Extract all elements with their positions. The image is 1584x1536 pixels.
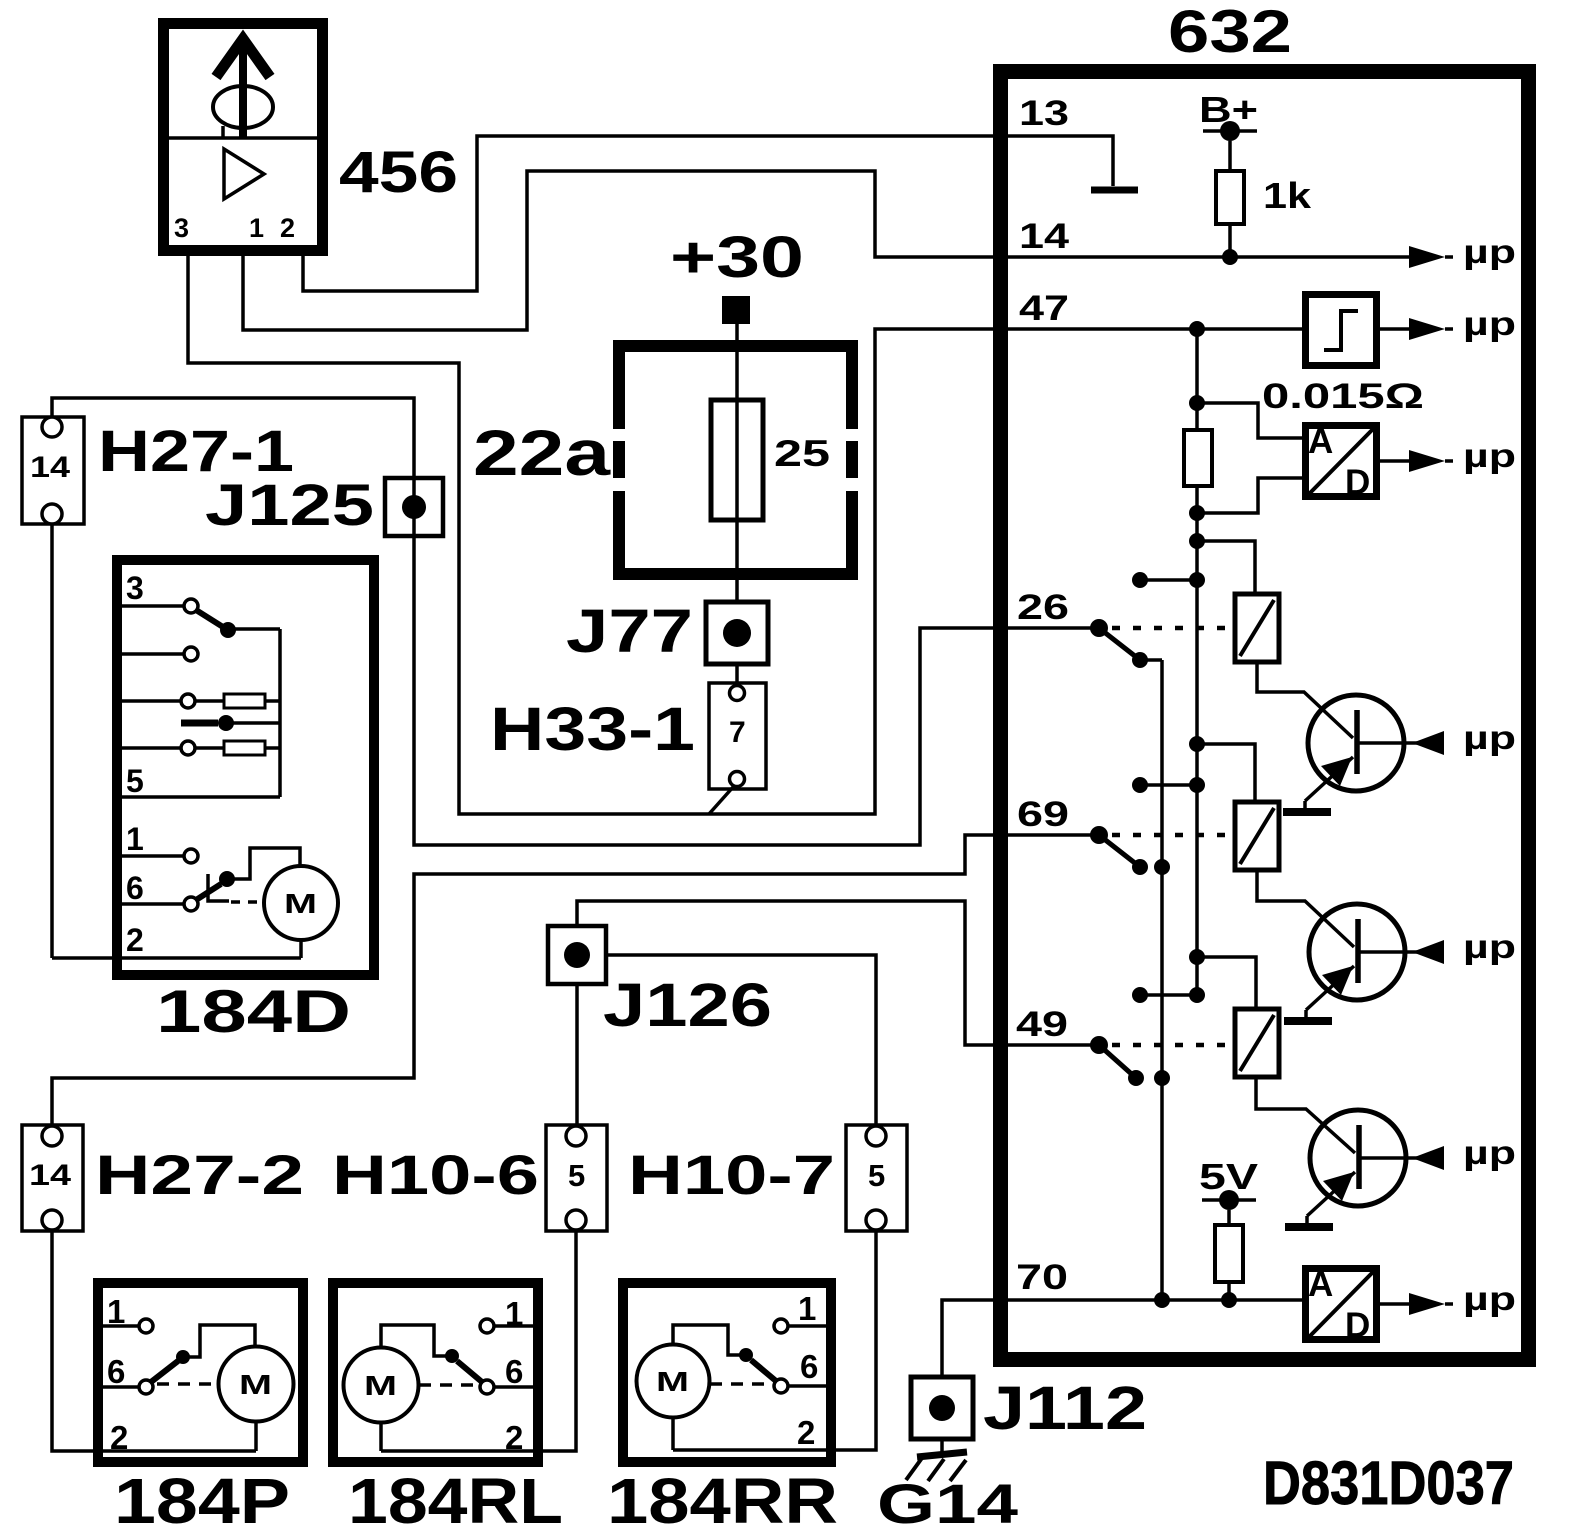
svg-text:+30: +30 [670, 225, 804, 290]
5V terminal [1202, 1190, 1256, 1225]
svg-text:70: 70 [1016, 1258, 1068, 1297]
dotted actuation link ch1 [1112, 626, 1235, 631]
svg-text:47: 47 [1019, 289, 1069, 328]
control unit 632 box [1001, 72, 1529, 1360]
transistor Q3 [1307, 1110, 1444, 1224]
wire H27-1 to 184D pin2 [50, 524, 54, 958]
motor unit 184RR box [623, 1283, 831, 1462]
pin 69 wire [996, 826, 1108, 844]
relay drive dot line ch1 [1132, 572, 1205, 588]
feed wire relay coil 2 [1189, 736, 1255, 802]
svg-text:5: 5 [868, 1158, 885, 1193]
resistor 1k [1216, 171, 1244, 257]
184RL motor M [344, 1348, 419, 1452]
svg-text:6: 6 [126, 870, 144, 906]
pull-up resistor 5V [1215, 1225, 1243, 1308]
184D pin 3 line [122, 599, 198, 613]
456 triangle icon [224, 149, 264, 199]
switch arm ch3 [1099, 1045, 1170, 1086]
relay coil 2 [1235, 802, 1279, 870]
184RL switch arm [381, 1325, 482, 1382]
relay 1 to transistor wire [1257, 662, 1353, 738]
184RL mechanical link dashes [419, 1383, 480, 1387]
184D pin 6 line [122, 897, 198, 911]
svg-text:A: A [1308, 1265, 1333, 1304]
dotted actuation link ch2 [1112, 833, 1235, 838]
svg-text:2: 2 [110, 1419, 128, 1456]
motor unit 184P box [98, 1283, 303, 1462]
wire J126 to 632 pin49 [577, 901, 996, 1045]
184RR pin 6 line [774, 1379, 826, 1393]
wire to D input [1189, 478, 1305, 521]
feed wire relay coil 3 [1189, 949, 1256, 1009]
transistor Q1 emitter ground [1283, 808, 1331, 816]
184RL pin 6 line [480, 1380, 533, 1394]
svg-text:0.015Ω: 0.015Ω [1262, 377, 1424, 416]
svg-text:14: 14 [1019, 217, 1070, 256]
svg-text:2: 2 [797, 1414, 815, 1451]
connector H10-7 [846, 1125, 907, 1231]
svg-text:1: 1 [126, 821, 144, 857]
svg-text:13: 13 [1019, 94, 1069, 133]
svg-text:1: 1 [249, 213, 264, 243]
ground G14 [906, 1452, 967, 1481]
relay coil 1 [1235, 594, 1279, 662]
fuse 25 element [711, 400, 763, 520]
base arrow Q2 from microprocessor [1412, 940, 1444, 964]
svg-text:1: 1 [505, 1295, 523, 1332]
184D switch arm pin6 [196, 848, 300, 900]
svg-text:H10-7: H10-7 [628, 1143, 835, 1206]
internal sense rail [1189, 329, 1205, 995]
svg-text:J125: J125 [205, 473, 374, 538]
fuse holder 22a dashed box [613, 340, 858, 580]
base arrow Q3 from microprocessor [1412, 1146, 1444, 1170]
svg-text:184D: 184D [156, 978, 351, 1045]
+30 supply terminal [670, 225, 804, 324]
junction J126 [548, 926, 606, 984]
pin 70 wire [996, 1298, 1305, 1302]
feed wire relay coil 1 [1189, 533, 1255, 594]
H33-1 tap diagonal to pin47 wire [709, 786, 734, 814]
svg-text:184P: 184P [114, 1465, 290, 1536]
184RR switch arm [673, 1325, 776, 1381]
connector H27-2 [22, 1125, 83, 1231]
184RL pin 1 line [480, 1319, 533, 1333]
svg-text:D: D [1345, 1306, 1370, 1345]
184P motor M [219, 1347, 294, 1452]
wire 632 pin70 to J112 [942, 1300, 996, 1377]
184D limit stop [208, 874, 229, 901]
184D switch arm pin3 [196, 610, 280, 638]
svg-text:6: 6 [800, 1348, 818, 1385]
A/D 2 output arrow [1377, 1293, 1453, 1315]
svg-text:M: M [239, 1369, 272, 1400]
svg-text:J77: J77 [566, 597, 693, 665]
svg-text:µp: µp [1463, 233, 1516, 270]
184P pin 1 line [103, 1319, 153, 1333]
wire H27-2 to 184P pin2 [52, 1229, 256, 1451]
svg-text:3: 3 [126, 570, 144, 606]
transistor Q3 emitter ground [1285, 1223, 1333, 1231]
wire 456 pin1 to 632 pin14 [243, 171, 996, 330]
svg-text:1: 1 [798, 1290, 816, 1327]
184D pin 1 line [122, 849, 198, 863]
svg-text:14: 14 [29, 1159, 71, 1192]
motor unit 184D box [117, 560, 374, 975]
184D motor M [264, 866, 338, 958]
456 arrow icon [213, 39, 273, 138]
A/D converter block 2 [1306, 1265, 1377, 1345]
relay drive dot line ch2 [1132, 777, 1205, 793]
wire 456 pin2 to 632 pin13 [303, 136, 996, 291]
svg-text:2: 2 [126, 922, 144, 958]
transistor Q1 [1305, 695, 1444, 809]
184P switch arm [151, 1325, 255, 1382]
svg-text:184RR: 184RR [607, 1465, 838, 1536]
184D internal bus [278, 629, 282, 797]
svg-text:M: M [284, 888, 317, 919]
relay 3 to transistor wire [1256, 1077, 1355, 1153]
connector H10-6 [546, 1125, 607, 1231]
184D resistor R2 line [122, 741, 280, 755]
svg-text:µp: µp [1463, 1280, 1516, 1317]
184D nc contact line [122, 647, 198, 661]
switch common wire to pin70 [1154, 660, 1170, 1308]
wire +30 to J77 [735, 324, 739, 602]
svg-text:5: 5 [126, 763, 144, 799]
connector H33-1 [709, 683, 766, 789]
svg-text:µp: µp [1463, 437, 1516, 474]
svg-text:6: 6 [107, 1353, 125, 1390]
svg-text:µp: µp [1463, 928, 1516, 965]
wire H10-7 to 184RR pin2 [673, 1229, 876, 1450]
svg-text:5: 5 [568, 1158, 585, 1193]
svg-text:J112: J112 [983, 1374, 1147, 1442]
svg-text:H27-2: H27-2 [95, 1143, 304, 1206]
svg-text:49: 49 [1016, 1005, 1068, 1044]
motor unit 184RL box [333, 1283, 538, 1462]
svg-text:22a: 22a [473, 417, 611, 489]
184D pin 2 line [52, 956, 301, 960]
svg-text:456: 456 [339, 140, 458, 205]
svg-text:J126: J126 [603, 971, 772, 1039]
svg-text:184RL: 184RL [348, 1465, 563, 1536]
184RR motor M [637, 1345, 710, 1451]
svg-text:G14: G14 [877, 1472, 1018, 1535]
comparator block [1306, 295, 1377, 366]
relay drive dot line ch3 [1132, 987, 1205, 1003]
svg-text:M: M [656, 1366, 689, 1397]
184D wiper [181, 715, 280, 731]
svg-text:3: 3 [174, 213, 189, 243]
wire J126 to H10-6 [575, 984, 579, 1128]
B+ terminal [1203, 121, 1257, 171]
svg-text:D831D037: D831D037 [1263, 1449, 1514, 1517]
comparator output arrow [1377, 318, 1453, 340]
pin 13 wire and ground [996, 136, 1138, 190]
184D resistor R1 line [122, 694, 280, 708]
pin 47 wire [996, 321, 1305, 337]
svg-text:µp: µp [1463, 719, 1516, 756]
svg-text:1: 1 [107, 1293, 125, 1330]
wire H27-1 to J125 [52, 398, 414, 536]
transistor Q2 [1306, 904, 1444, 1018]
svg-text:H10-6: H10-6 [332, 1143, 539, 1206]
svg-text:M: M [364, 1370, 397, 1401]
connector H27-1 [22, 417, 84, 524]
switch arm ch1 [1099, 628, 1162, 668]
svg-text:µp: µp [1463, 305, 1516, 342]
pin 49 wire [996, 1036, 1108, 1054]
wire J126 to H10-7 [606, 955, 876, 1128]
pin 26 wire [996, 619, 1108, 637]
relay 2 to transistor wire [1257, 870, 1354, 947]
dotted actuation link ch3 [1112, 1043, 1235, 1048]
junction J77 [706, 602, 768, 686]
wire 456 pin3 to 632 pin47 [188, 250, 996, 814]
wire 632 pin69 to H27-2 [52, 835, 996, 1128]
184RR pin 1 line [774, 1319, 826, 1333]
svg-text:14: 14 [30, 451, 70, 484]
junction J112 [911, 1377, 973, 1455]
A/D converter block 1 [1306, 422, 1377, 502]
pin 14 wire to microprocessor [996, 246, 1453, 268]
junction J125 [385, 478, 443, 536]
184D mechanical link dashes [231, 900, 264, 904]
svg-text:7: 7 [729, 716, 746, 749]
svg-text:26: 26 [1017, 588, 1069, 627]
svg-text:6: 6 [505, 1353, 523, 1390]
svg-text:25: 25 [774, 433, 830, 474]
svg-text:2: 2 [280, 213, 295, 243]
A/D 1 output arrow [1377, 450, 1453, 472]
svg-text:2: 2 [505, 1419, 523, 1456]
184P mechanical link dashes [157, 1382, 218, 1386]
relay coil 3 [1235, 1009, 1279, 1077]
184D pin 5 line [122, 795, 280, 799]
base arrow Q1 from microprocessor [1412, 731, 1444, 755]
shunt resistor 0.015 ohm [1184, 430, 1212, 486]
svg-text:µp: µp [1463, 1134, 1516, 1171]
svg-text:1k: 1k [1263, 175, 1312, 216]
184P pin 6 line [103, 1380, 153, 1394]
svg-text:H33-1: H33-1 [490, 695, 695, 763]
wire H10-6 to 184RL pin2 [381, 1229, 576, 1451]
svg-text:A: A [1308, 422, 1333, 461]
transistor Q2 emitter ground [1284, 1017, 1332, 1025]
wire to A input [1197, 403, 1305, 438]
184RR mechanical link dashes [710, 1382, 774, 1386]
svg-text:632: 632 [1168, 0, 1292, 65]
wire J125 to 632 pin26 [414, 536, 996, 845]
svg-text:D: D [1345, 463, 1370, 502]
switch arm ch2 [1099, 835, 1170, 875]
headlamp leveling switch 456 box [163, 24, 323, 251]
svg-text:69: 69 [1017, 795, 1069, 834]
